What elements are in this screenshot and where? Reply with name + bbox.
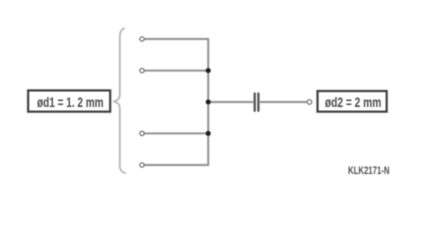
svg-text:KLK2171-N: KLK2171-N	[348, 165, 390, 177]
svg-text:ød2 = 2 mm: ød2 = 2 mm	[325, 94, 382, 110]
svg-text:ød1 = 1. 2 mm: ød1 = 1. 2 mm	[37, 94, 104, 110]
